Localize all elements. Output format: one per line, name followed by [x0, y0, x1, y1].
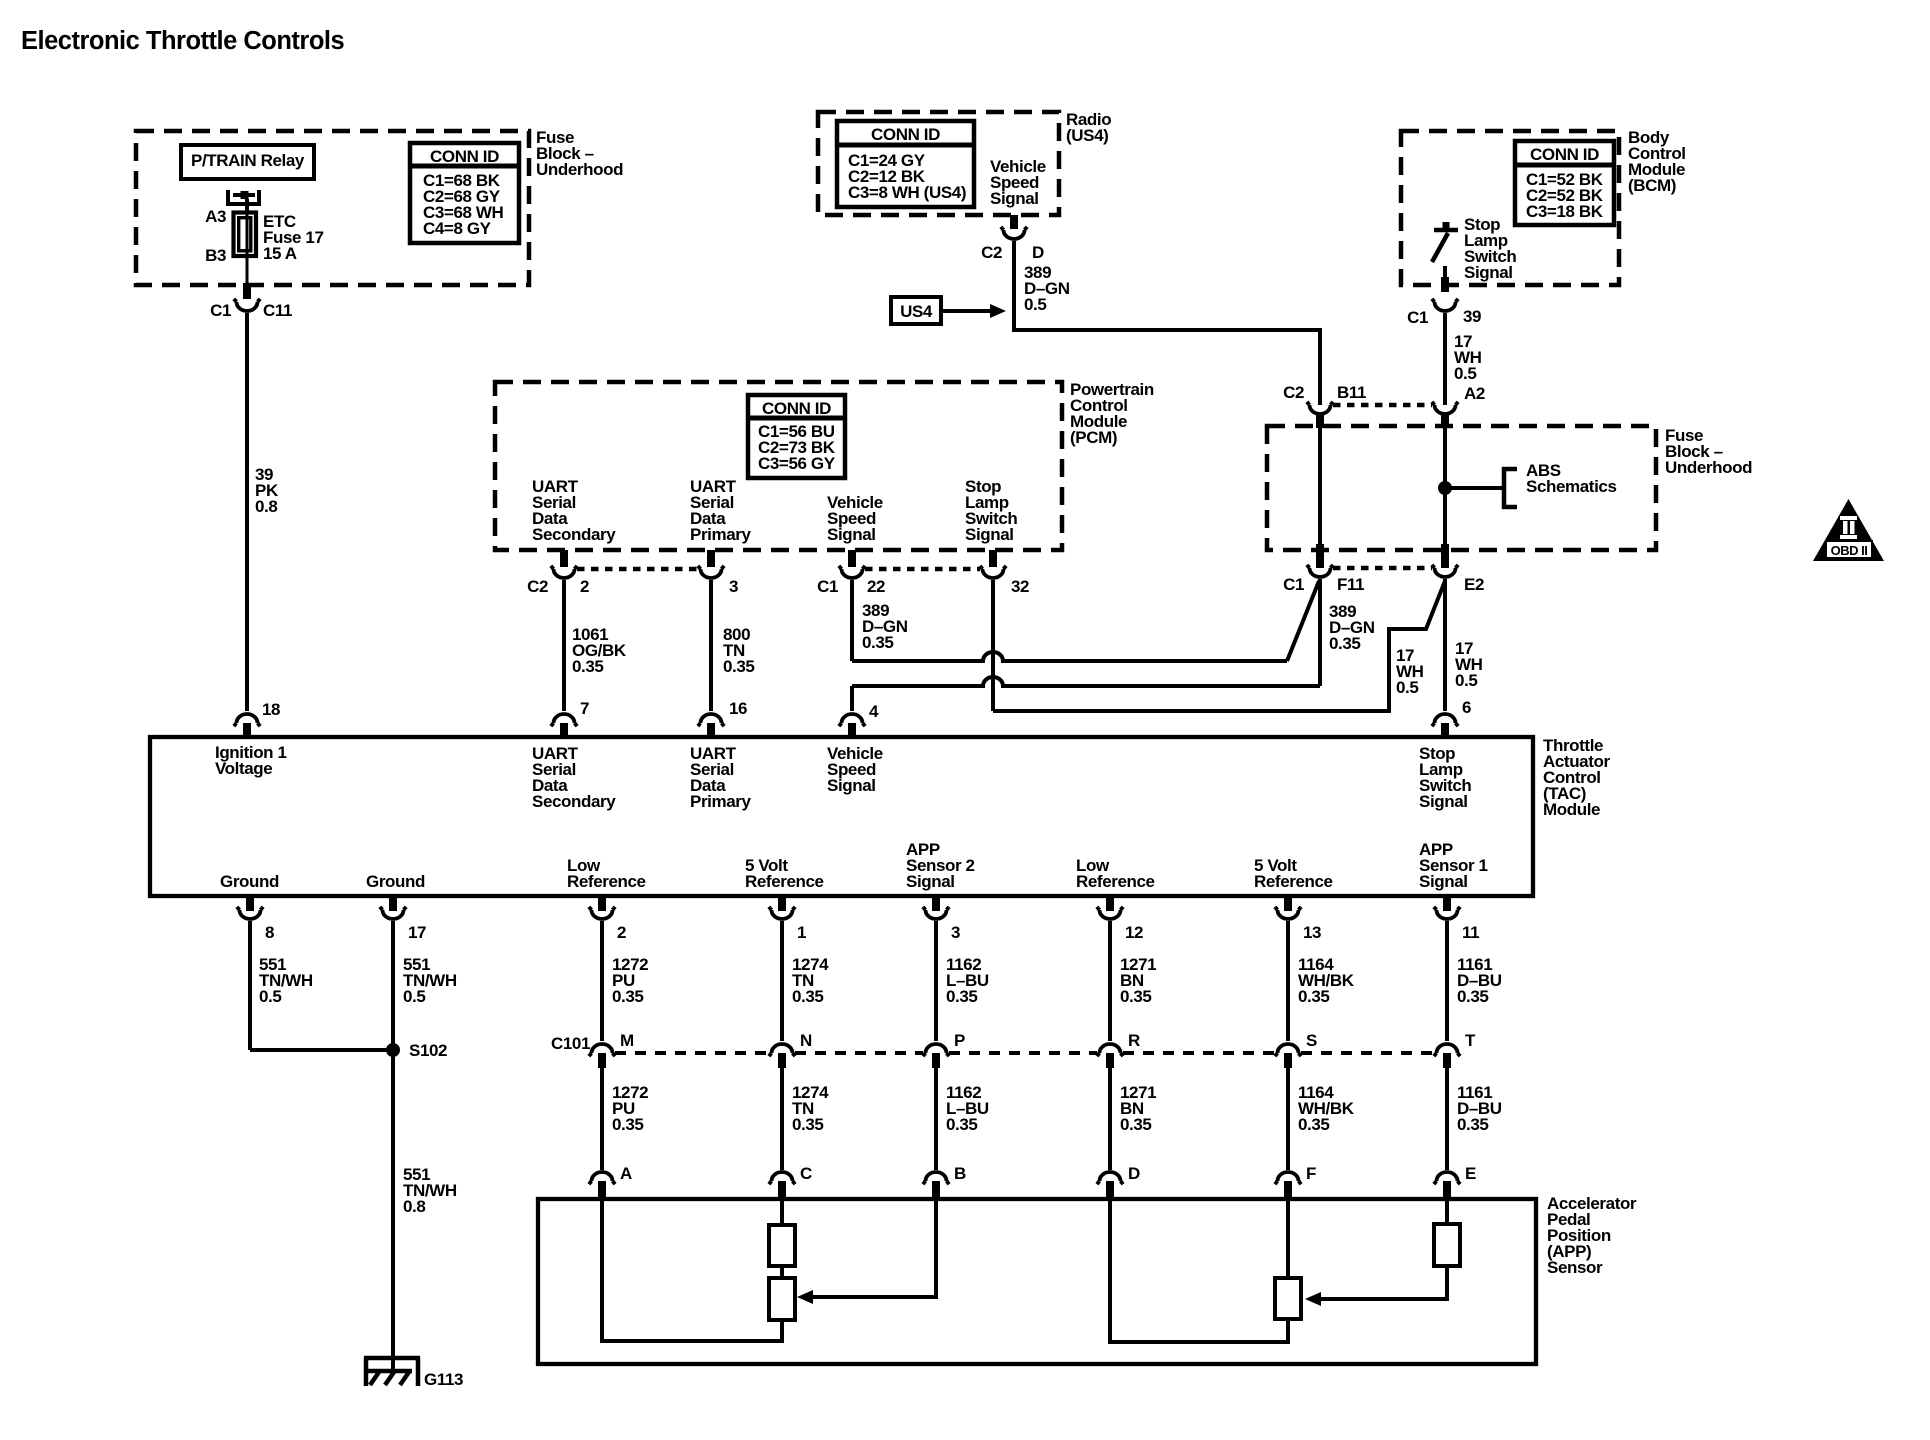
svg-text:0.35: 0.35: [792, 987, 824, 1006]
svg-text:C3=18 BK: C3=18 BK: [1526, 202, 1604, 221]
TAC pin 7 connector: [551, 714, 577, 726]
svg-text:Secondary: Secondary: [532, 525, 616, 544]
svg-text:16: 16: [729, 699, 747, 718]
svg-text:E: E: [1465, 1164, 1476, 1183]
connector line C2 fuse block (dotted): [1333, 403, 1432, 408]
svg-text:7: 7: [580, 699, 589, 718]
wire 1272 PU 0.35 C101 to APP sensor: [600, 1067, 604, 1170]
wire 1164 WH/BK 0.35 TAC to C101 S: [1286, 921, 1290, 1041]
wire APP pin A to potentiometer 2 low side: [602, 1199, 782, 1341]
APP sensor pin C connector: [769, 1172, 795, 1184]
wire APP pin B wiper arrow (sensor 2): [813, 1199, 936, 1297]
APP sensor pin A connector: [589, 1172, 615, 1184]
svg-text:C2: C2: [1283, 383, 1304, 402]
wire radio D to fuse block B11: [1014, 241, 1320, 405]
junction ABS tap: [1438, 481, 1452, 495]
svg-text:0.8: 0.8: [255, 497, 277, 516]
svg-text:F: F: [1306, 1164, 1316, 1183]
wire 17 WH 0.5 PCM 32 to fuse block E2: [991, 580, 995, 711]
TAC pin 12 connector: [1106, 896, 1114, 911]
connector C1 F11 on fuse block: [1307, 565, 1333, 577]
connector C101 cavity R: [1097, 1044, 1123, 1056]
wire 1061 OG/BK 0.35: [562, 580, 566, 711]
svg-text:2: 2: [617, 923, 626, 942]
svg-text:0.35: 0.35: [1329, 634, 1361, 653]
svg-text:Signal: Signal: [1464, 263, 1513, 282]
relay contact symbol: [226, 190, 230, 206]
wire pin 8 to splice S102: [250, 1048, 393, 1052]
potentiometer 2 resistor element: [769, 1225, 795, 1266]
APP sensor pin F connector: [1275, 1172, 1301, 1184]
wire 39 PK 0.8: [245, 313, 249, 711]
wire 389 D-GN 0.35 PCM 22 to fuse block F11: [850, 580, 854, 661]
potentiometer 1 wiper box: [1275, 1278, 1301, 1319]
svg-text:0.35: 0.35: [1298, 987, 1330, 1006]
svg-text:C4=8 GY: C4=8 GY: [423, 219, 492, 238]
svg-text:Signal: Signal: [827, 776, 876, 795]
svg-text:0.35: 0.35: [612, 1115, 644, 1134]
svg-text:0.35: 0.35: [572, 657, 604, 676]
svg-text:15 A: 15 A: [263, 244, 297, 263]
svg-text:(PCM): (PCM): [1070, 428, 1117, 447]
PCM pin 2 connector: [560, 550, 568, 567]
svg-text:Voltage: Voltage: [215, 759, 272, 778]
ground G113 symbol: [364, 1356, 420, 1361]
connector C1 C11 below fuse block: [243, 283, 251, 299]
svg-text:G113: G113: [424, 1370, 463, 1389]
svg-text:C2: C2: [981, 243, 1002, 262]
stop lamp switch symbol (BCM): [1434, 228, 1458, 233]
svg-text:Primary: Primary: [690, 525, 751, 544]
svg-text:Signal: Signal: [1419, 792, 1468, 811]
svg-text:0.5: 0.5: [259, 987, 281, 1006]
svg-text:Primary: Primary: [690, 792, 751, 811]
PCM pin 22 connector: [848, 550, 856, 567]
svg-text:B3: B3: [205, 246, 226, 265]
relay P/TRAIN Relay box: [181, 145, 314, 179]
svg-text:CONN ID: CONN ID: [871, 125, 940, 144]
svg-text:C3=56 GY: C3=56 GY: [758, 454, 836, 473]
svg-text:OBD II: OBD II: [1831, 543, 1868, 558]
wire through fuse: [246, 213, 249, 284]
wire fuse block F11 to TAC pin 4: [1318, 579, 1322, 686]
connector C101 cavity M: [589, 1044, 615, 1056]
CONN ID table (PCM): [748, 395, 845, 478]
svg-text:8: 8: [265, 923, 274, 942]
svg-text:0.8: 0.8: [403, 1197, 425, 1216]
svg-text:C1: C1: [817, 577, 838, 596]
svg-text:0.35: 0.35: [612, 987, 644, 1006]
svg-text:F11: F11: [1337, 575, 1364, 594]
svg-text:N: N: [800, 1031, 812, 1050]
svg-text:C: C: [800, 1164, 812, 1183]
svg-text:0.35: 0.35: [1457, 987, 1489, 1006]
wire 1161 D–BU 0.35 TAC to C101 T: [1445, 921, 1449, 1041]
TAC pin 1 connector: [778, 896, 786, 911]
svg-text:1: 1: [797, 923, 806, 942]
wire to ABS schematics bracket: [1445, 486, 1504, 490]
connector line PCM C1 (dotted): [865, 567, 980, 572]
svg-text:17: 17: [408, 923, 426, 942]
svg-text:0.5: 0.5: [1454, 364, 1476, 383]
connector line PCM C2 (dotted): [577, 567, 698, 572]
svg-text:C1: C1: [210, 301, 231, 320]
wire APP pin D to potentiometer 1 low side: [1110, 1199, 1288, 1342]
svg-text:CONN ID: CONN ID: [430, 147, 499, 166]
wire 800 TN 0.35: [709, 580, 713, 711]
svg-text:3: 3: [951, 923, 960, 942]
TAC pin 4 connector: [839, 714, 865, 726]
svg-text:P/TRAIN Relay: P/TRAIN Relay: [191, 151, 305, 170]
svg-text:Sensor: Sensor: [1547, 1258, 1603, 1277]
wire 1274 TN 0.35 TAC to C101 N: [780, 921, 784, 1041]
svg-text:0.35: 0.35: [723, 657, 755, 676]
wire 551 TN/WH 0.5 (pin 17): [391, 921, 395, 1371]
radio (US4) dashed outline: [818, 112, 1059, 215]
svg-text:Underhood: Underhood: [1665, 458, 1752, 477]
TAC pin 16 connector: [698, 714, 724, 726]
potentiometer 2 wiper box: [780, 1266, 784, 1278]
potentiometer 1 resistor element: [1434, 1224, 1460, 1266]
connector A2 on fuse block: [1432, 402, 1458, 414]
powertrain control module (PCM) dashed outline: [495, 382, 1062, 550]
svg-text:T: T: [1465, 1031, 1476, 1050]
svg-text:(BCM): (BCM): [1628, 176, 1676, 195]
svg-text:0.35: 0.35: [1457, 1115, 1489, 1134]
svg-text:11: 11: [1462, 923, 1479, 942]
svg-text:Reference: Reference: [1076, 872, 1155, 891]
connector line C1 fuse block (dotted): [1333, 566, 1432, 571]
wire A2 to E2 inside fuse block: [1443, 416, 1447, 545]
PCM pin 3 connector: [707, 550, 715, 567]
TAC pin 11 connector: [1443, 896, 1451, 911]
svg-text:Ground: Ground: [366, 872, 425, 891]
svg-text:Signal: Signal: [990, 189, 1039, 208]
svg-text:D: D: [1032, 243, 1044, 262]
connector C101 cavity T: [1434, 1044, 1460, 1056]
svg-text:C3=8 WH (US4): C3=8 WH (US4): [848, 183, 966, 202]
wire 1164 WH/BK 0.35 C101 to APP sensor: [1286, 1067, 1290, 1170]
svg-text:B11: B11: [1337, 383, 1366, 402]
wire 1162 L–BU 0.35 C101 to APP sensor: [934, 1067, 938, 1170]
APP sensor pin E connector: [1434, 1172, 1460, 1184]
svg-text:A: A: [620, 1164, 632, 1183]
svg-text:C1: C1: [1407, 308, 1428, 327]
svg-text:0.35: 0.35: [946, 1115, 978, 1134]
svg-text:3: 3: [729, 577, 738, 596]
wire relay to fuse: [245, 199, 249, 213]
TAC pin 17 connector: [389, 896, 397, 911]
svg-text:A2: A2: [1464, 384, 1485, 403]
svg-text:Signal: Signal: [827, 525, 876, 544]
wire APP pin F to potentiometer 1 wiper: [1286, 1199, 1290, 1278]
svg-text:C2: C2: [527, 577, 548, 596]
svg-text:0.35: 0.35: [1120, 987, 1152, 1006]
svg-text:Module: Module: [1543, 800, 1600, 819]
svg-text:0.5: 0.5: [1455, 671, 1477, 690]
svg-text:D: D: [1128, 1164, 1140, 1183]
svg-text:B: B: [954, 1164, 966, 1183]
accelerator pedal position (APP) sensor box: [538, 1199, 1536, 1364]
TAC pin 3 connector: [932, 896, 940, 911]
connector C2 B11 on fuse block: [1307, 402, 1333, 414]
connector E2 on fuse block: [1432, 565, 1458, 577]
svg-text:(US4): (US4): [1066, 126, 1108, 145]
wire APP pin C to potentiometer 2: [780, 1199, 784, 1225]
svg-text:P: P: [954, 1031, 965, 1050]
CONN ID table (BCM): [1515, 141, 1614, 225]
wire B11 to F11 inside fuse block: [1318, 416, 1322, 545]
svg-text:S102: S102: [409, 1041, 447, 1060]
connector C101 cavity N: [769, 1044, 795, 1056]
svg-text:0.35: 0.35: [862, 633, 894, 652]
svg-text:22: 22: [867, 577, 885, 596]
fuse block underhood (right) dashed outline: [1267, 426, 1656, 550]
svg-text:C1: C1: [1283, 575, 1304, 594]
svg-text:32: 32: [1011, 577, 1029, 596]
fuse ETC Fuse 17 15 A: [234, 213, 257, 257]
arrow US4 to wire: [941, 309, 992, 313]
wire BCM switch to C1 connector: [1443, 266, 1447, 290]
svg-text:C11: C11: [263, 301, 292, 320]
TAC pin 8 connector: [246, 896, 254, 911]
wire 1271 BN 0.35 TAC to C101 R: [1108, 921, 1112, 1041]
connector C101 cavity P: [923, 1044, 949, 1056]
svg-text:R: R: [1128, 1031, 1140, 1050]
connector C1 39 below BCM: [1432, 299, 1458, 311]
wire 17 WH 0.5 fuse block E2 to TAC pin 6: [1443, 579, 1447, 711]
svg-text:Signal: Signal: [965, 525, 1014, 544]
wire potentiometer 1 wiper arrow: [1321, 1266, 1447, 1299]
TAC pin 13 connector: [1284, 896, 1292, 911]
connector line C101 (dashed): [615, 1051, 769, 1055]
splice S102: [386, 1043, 400, 1057]
US4 option box: [891, 297, 941, 324]
svg-text:A3: A3: [205, 207, 226, 226]
TAC pin 18 connector: [234, 714, 260, 726]
connector C2 D below radio: [1010, 215, 1018, 229]
CONN ID table (fuse block underhood): [410, 143, 519, 243]
connector C101 cavity S: [1275, 1044, 1301, 1056]
svg-text:12: 12: [1125, 923, 1143, 942]
svg-text:E2: E2: [1464, 575, 1484, 594]
wire 551 TN/WH 0.5 (pin 8): [248, 921, 252, 1050]
svg-text:S: S: [1306, 1031, 1317, 1050]
svg-text:18: 18: [262, 700, 280, 719]
wire 17 WH 0.5 BCM to fuse block A2: [1443, 313, 1447, 405]
wire APP pin E to potentiometer 1: [1445, 1199, 1449, 1224]
svg-text:CONN ID: CONN ID: [1530, 145, 1599, 164]
wire 1161 D–BU 0.35 C101 to APP sensor: [1445, 1067, 1449, 1170]
svg-text:Reference: Reference: [1254, 872, 1333, 891]
CONN ID table (radio): [837, 121, 974, 207]
svg-text:Underhood: Underhood: [536, 160, 623, 179]
wire 1274 TN 0.35 C101 to APP sensor: [780, 1067, 784, 1170]
svg-text:Secondary: Secondary: [532, 792, 616, 811]
svg-text:CONN ID: CONN ID: [762, 399, 831, 418]
throttle actuator control (TAC) module box: [150, 737, 1533, 896]
svg-text:0.5: 0.5: [403, 987, 425, 1006]
svg-text:0.5: 0.5: [1024, 295, 1046, 314]
svg-text:0.5: 0.5: [1396, 678, 1418, 697]
TAC pin 6 connector: [1432, 714, 1458, 726]
TAC pin 2 connector: [598, 896, 606, 911]
svg-text:4: 4: [869, 702, 879, 721]
wire 1271 BN 0.35 C101 to APP sensor: [1108, 1067, 1112, 1170]
svg-text:US4: US4: [900, 302, 933, 321]
body control module (BCM) dashed outline: [1401, 131, 1619, 285]
svg-text:39: 39: [1463, 307, 1481, 326]
OBD II symbol: [1813, 499, 1884, 561]
svg-text:M: M: [620, 1031, 634, 1050]
svg-text:C101: C101: [551, 1034, 590, 1053]
svg-text:Signal: Signal: [1419, 872, 1468, 891]
svg-text:2: 2: [580, 577, 589, 596]
svg-text:Reference: Reference: [567, 872, 646, 891]
fuse block underhood (top left) dashed outline: [136, 131, 529, 285]
svg-text:6: 6: [1462, 698, 1471, 717]
svg-text:0.35: 0.35: [1120, 1115, 1152, 1134]
svg-text:Schematics: Schematics: [1526, 477, 1617, 496]
svg-text:0.35: 0.35: [1298, 1115, 1330, 1134]
svg-text:0.35: 0.35: [946, 987, 978, 1006]
svg-text:Signal: Signal: [906, 872, 955, 891]
svg-text:13: 13: [1303, 923, 1321, 942]
ABS schematics bracket: [1504, 469, 1517, 507]
wire 1272 PU 0.35 TAC to C101 M: [600, 921, 604, 1041]
svg-text:0.35: 0.35: [792, 1115, 824, 1134]
svg-text:Ground: Ground: [220, 872, 279, 891]
wire 1162 L–BU 0.35 TAC to C101 P: [934, 921, 938, 1041]
svg-text:Electronic Throttle Controls: Electronic Throttle Controls: [21, 27, 345, 55]
APP sensor pin D connector: [1097, 1172, 1123, 1184]
APP sensor pin B connector: [923, 1172, 949, 1184]
svg-text:Reference: Reference: [745, 872, 824, 891]
PCM pin 32 connector: [989, 550, 997, 567]
